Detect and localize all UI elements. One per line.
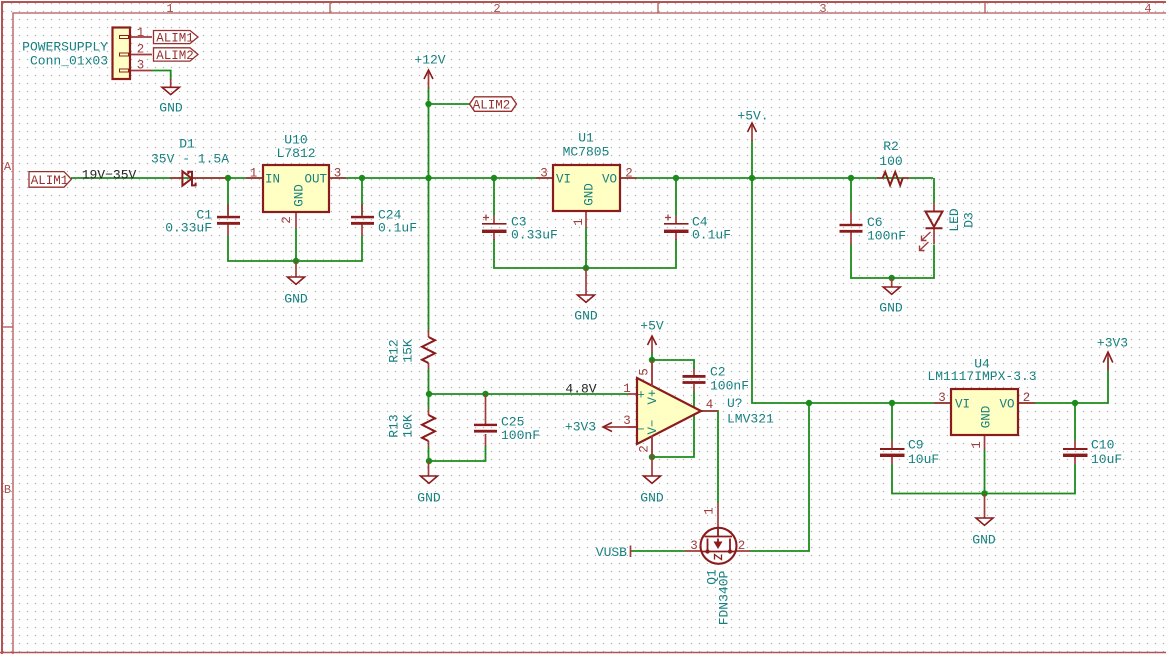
svg-text:1: 1	[572, 218, 586, 226]
svg-text:ALIM1: ALIM1	[31, 174, 69, 188]
svg-text:2: 2	[493, 2, 500, 16]
svg-text:ALIM1: ALIM1	[156, 32, 194, 46]
svg-text:0.1uF: 0.1uF	[378, 221, 417, 236]
svg-text:POWERSUPPLY: POWERSUPPLY	[22, 40, 108, 55]
svg-text:VI: VI	[556, 173, 571, 187]
svg-text:1: 1	[250, 167, 258, 181]
svg-text:GND: GND	[574, 309, 598, 324]
svg-text:+: +	[637, 389, 645, 403]
svg-text:2: 2	[280, 216, 294, 224]
svg-text:+5V.: +5V.	[737, 109, 768, 124]
svg-text:VI: VI	[955, 398, 970, 412]
svg-text:GND: GND	[293, 184, 307, 207]
svg-text:LMV321: LMV321	[727, 412, 774, 427]
svg-text:C9: C9	[908, 438, 924, 453]
svg-text:GND: GND	[284, 292, 308, 307]
svg-text:100nF: 100nF	[867, 229, 906, 244]
svg-text:3: 3	[137, 59, 145, 73]
svg-text:2: 2	[625, 167, 633, 181]
svg-text:GND: GND	[980, 406, 994, 429]
svg-text:L7812: L7812	[276, 146, 315, 161]
svg-text:IN: IN	[265, 173, 280, 187]
svg-text:2: 2	[738, 539, 746, 553]
svg-text:VO: VO	[999, 398, 1014, 412]
svg-text:MC7805: MC7805	[563, 145, 610, 160]
svg-text:GND: GND	[583, 183, 597, 206]
svg-text:+3V3: +3V3	[565, 420, 596, 435]
svg-text:4: 4	[706, 398, 714, 412]
svg-text:LM1117IMPX-3.3: LM1117IMPX-3.3	[927, 369, 1036, 384]
svg-text:100nF: 100nF	[501, 428, 540, 443]
svg-text:100nF: 100nF	[710, 379, 749, 394]
svg-text:0.33uF: 0.33uF	[165, 221, 212, 236]
svg-text:10uF: 10uF	[908, 452, 939, 467]
svg-text:C2: C2	[710, 365, 726, 380]
svg-text:OUT: OUT	[304, 173, 327, 187]
svg-text:R12: R12	[387, 339, 402, 362]
svg-text:15K: 15K	[401, 339, 416, 363]
svg-text:A: A	[4, 160, 12, 174]
svg-text:U1: U1	[578, 131, 594, 146]
svg-text:10K: 10K	[401, 414, 416, 438]
svg-text:0.33uF: 0.33uF	[511, 228, 558, 243]
svg-text:+3V3: +3V3	[1097, 336, 1128, 351]
svg-text:−: −	[637, 423, 645, 437]
svg-text:D3: D3	[962, 212, 977, 228]
svg-text:100: 100	[879, 154, 902, 169]
svg-text:GND: GND	[972, 533, 996, 548]
svg-text:R13: R13	[387, 414, 402, 437]
svg-text:3: 3	[540, 167, 548, 181]
svg-text:3: 3	[334, 167, 342, 181]
svg-text:V+: V+	[646, 389, 660, 404]
svg-text:3: 3	[938, 391, 946, 405]
svg-text:4.8V: 4.8V	[565, 382, 596, 397]
svg-text:GND: GND	[417, 491, 441, 506]
svg-text:1: 1	[137, 26, 145, 40]
svg-text:U?: U?	[727, 396, 743, 411]
svg-text:4: 4	[1144, 2, 1151, 16]
svg-text:+5V: +5V	[640, 319, 664, 334]
svg-text:R2: R2	[883, 139, 899, 154]
svg-text:VUSB: VUSB	[596, 545, 627, 560]
svg-text:1: 1	[970, 441, 984, 449]
svg-text:3: 3	[690, 539, 698, 553]
svg-text:1: 1	[623, 382, 631, 396]
svg-text:35V - 1.5A: 35V - 1.5A	[151, 152, 229, 167]
svg-text:FDN340P: FDN340P	[717, 570, 732, 625]
svg-text:LED: LED	[947, 208, 962, 232]
svg-text:GND: GND	[879, 301, 903, 316]
svg-text:2: 2	[638, 445, 652, 453]
svg-text:1: 1	[703, 507, 717, 515]
svg-text:VO: VO	[602, 173, 617, 187]
svg-text:GND: GND	[640, 491, 664, 506]
svg-text:2: 2	[1023, 391, 1031, 405]
svg-text:ALIM2: ALIM2	[156, 49, 194, 63]
svg-text:D1: D1	[179, 137, 195, 152]
svg-text:0.1uF: 0.1uF	[692, 228, 731, 243]
svg-text:1: 1	[166, 2, 173, 16]
svg-text:2: 2	[137, 43, 145, 57]
svg-text:Conn_01x03: Conn_01x03	[30, 54, 108, 69]
svg-text:10uF: 10uF	[1091, 452, 1122, 467]
svg-text:+12V: +12V	[414, 53, 445, 68]
svg-text:V−: V−	[646, 419, 660, 434]
svg-text:GND: GND	[159, 101, 183, 116]
svg-text:C10: C10	[1091, 438, 1114, 453]
svg-text:3: 3	[819, 2, 826, 16]
svg-text:3: 3	[623, 414, 631, 428]
svg-text:B: B	[4, 483, 11, 497]
svg-text:19V−35V: 19V−35V	[82, 168, 137, 183]
svg-text:ALIM2: ALIM2	[473, 99, 511, 113]
svg-text:5: 5	[638, 368, 652, 376]
